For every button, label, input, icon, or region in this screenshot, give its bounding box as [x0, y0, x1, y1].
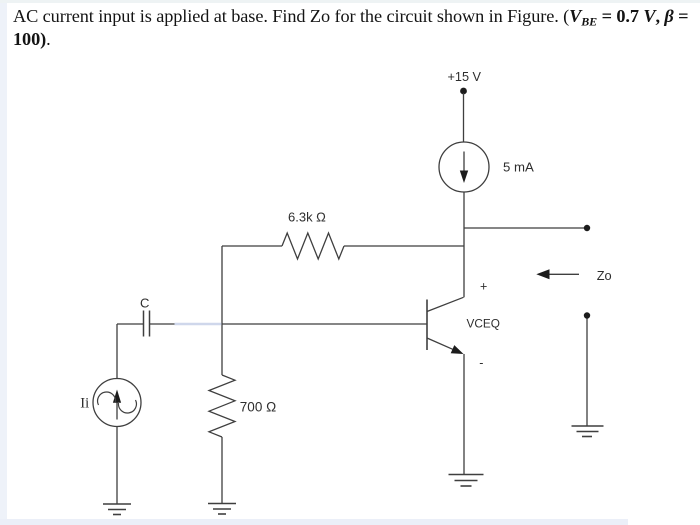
svg-text:5 mA: 5 mA — [503, 159, 534, 174]
wire current source to collector node — [463, 192, 465, 297]
node output top dot — [584, 225, 590, 231]
wire collector node to output node — [464, 227, 587, 229]
current source Ii circle — [93, 379, 141, 427]
transistor Q1 collector lead — [427, 297, 464, 311]
ground below emitter — [449, 475, 484, 487]
current source Ii arrow — [113, 390, 121, 420]
capacitor C1 plates — [144, 311, 150, 337]
ground below Ii source — [103, 504, 131, 515]
resistor R1 6.3k ohm — [282, 233, 344, 259]
wire input branch down to source — [116, 324, 118, 379]
Zo arrow — [536, 269, 579, 279]
page bottom border strip — [0, 519, 628, 525]
wire 6.3k left lead — [222, 245, 282, 247]
svg-text:C: C — [140, 296, 149, 311]
svg-text:+: + — [480, 279, 487, 293]
svg-text:700 Ω: 700 Ω — [240, 399, 276, 414]
resistor R2 700 ohm — [209, 375, 235, 437]
wire capacitor left lead — [117, 323, 144, 325]
svg-text:Ii: Ii — [80, 395, 89, 411]
wire base highlighted segment — [175, 323, 222, 325]
page top border strip — [0, 0, 700, 3]
wire 6.3k right lead — [344, 245, 464, 247]
page left border strip — [0, 0, 7, 525]
wire emitter to ground — [463, 354, 465, 475]
node +15V supply dot — [460, 88, 467, 95]
node output bottom dot — [584, 312, 590, 318]
svg-text:+15 V: +15 V — [448, 70, 482, 84]
problem statement text — [13, 5, 699, 52]
svg-text:6.3k Ω: 6.3k Ω — [288, 209, 326, 224]
transistor Q1 emitter arrow — [451, 345, 464, 354]
svg-text:VCEQ: VCEQ — [467, 316, 500, 330]
wire 700 ohm to ground — [221, 437, 223, 504]
svg-text:-: - — [479, 356, 483, 370]
wire left branch vertical to 700 ohm — [221, 246, 223, 375]
ground below output branch — [572, 426, 604, 437]
current source I1 (5 mA) circle — [439, 142, 489, 192]
ground below 700 ohm — [208, 504, 236, 515]
current source I1 arrow — [460, 152, 468, 184]
wire output branch vertical — [586, 318, 588, 426]
transistor Q1 base bar — [426, 300, 428, 351]
wire supply to current source — [463, 93, 465, 143]
svg-text:Zo: Zo — [597, 268, 612, 283]
wire Ii source to ground — [116, 427, 118, 505]
current source Ii sine arcs — [98, 392, 137, 413]
wire base (capacitor to transistor base) — [150, 323, 428, 325]
transistor Q1 emitter lead — [427, 338, 455, 350]
